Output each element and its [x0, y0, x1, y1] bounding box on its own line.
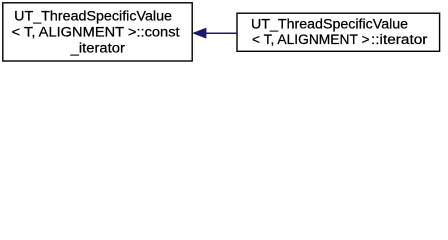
wire: inheritance edge line [206, 32, 238, 34]
svg-text:UT_ThreadSpecificValue: UT_ThreadSpecificValue [14, 7, 172, 23]
svg-text:< T, ALIGNMENT >::const: < T, ALIGNMENT >::const [12, 24, 180, 40]
svg-text:< T, ALIGNMENT >: < T, ALIGNMENT > [252, 31, 370, 47]
node Node1: UT_ThreadSpecificValue< T, ALIGNMENT >::const_iterator box [3, 3, 192, 61]
svg-text:_iterator: _iterator [70, 40, 126, 56]
arrowhead: inheritance arrow pointing at Node1 [193, 28, 206, 38]
svg-text:::iterator: ::iterator [371, 31, 428, 47]
node Node2: UT_ThreadSpecificValue< T, ALIGNMENT >::iterator box [237, 13, 440, 51]
svg-text:UT_ThreadSpecificValue: UT_ThreadSpecificValue [251, 15, 408, 31]
